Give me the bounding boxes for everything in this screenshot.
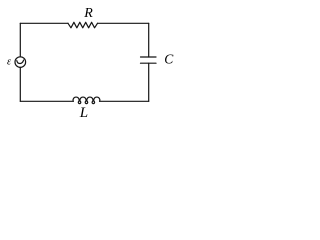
wire top-right segment bbox=[98, 22, 149, 24]
ac source sine bbox=[17, 60, 24, 63]
svg-text:R: R bbox=[83, 6, 93, 21]
wire left lower bbox=[19, 67, 21, 101]
svg-text:ε: ε bbox=[7, 57, 11, 68]
wire right upper bbox=[148, 23, 150, 57]
resistor R bbox=[68, 22, 98, 28]
wire bottom-left segment bbox=[20, 100, 73, 102]
wire top-left segment bbox=[20, 22, 68, 24]
capacitor C top plate bbox=[141, 56, 157, 58]
svg-text:L: L bbox=[79, 105, 88, 121]
wire bottom-right segment bbox=[100, 100, 149, 102]
wire right lower bbox=[148, 63, 150, 101]
inductor L bbox=[73, 97, 100, 104]
ac source circle bbox=[15, 57, 26, 68]
capacitor C bottom plate bbox=[141, 62, 157, 64]
wire left upper bbox=[19, 23, 21, 57]
svg-text:C: C bbox=[164, 51, 174, 66]
